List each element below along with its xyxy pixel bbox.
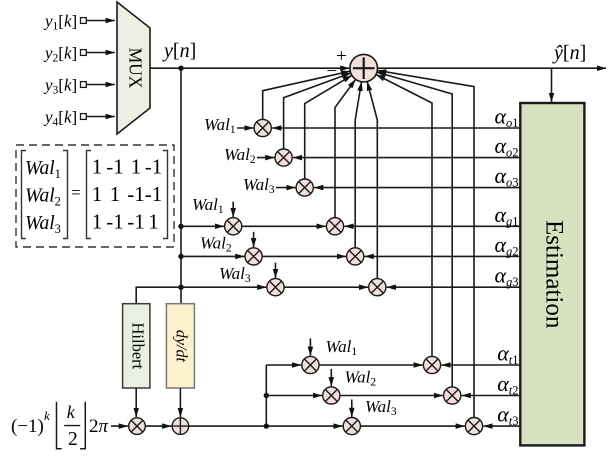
svg-text:Wal1: Wal1 [204, 115, 236, 136]
wire t1 first to second multiplier [319, 364, 423, 366]
wire alpha_g1 from Estimation [344, 225, 520, 227]
wire g2 product up to adder [355, 82, 361, 248]
svg-text:-1: -1 [106, 155, 124, 179]
svg-text:(−1): (−1) [11, 416, 44, 437]
wire alpha_o3 from Estimation [314, 187, 520, 189]
wire t3 product up to adder [377, 71, 474, 418]
svg-text:αo3: αo3 [494, 163, 518, 190]
wire alpha_o1 from Estimation [272, 127, 520, 129]
wire alpha_t2 from Estimation [462, 395, 521, 397]
wire 2pi into phase multiplier [111, 425, 128, 427]
svg-text:-1: -1 [127, 209, 145, 233]
svg-text:−: − [327, 61, 338, 82]
wire o1 product up to adder [263, 71, 351, 119]
wire alpha_t1 from Estimation [441, 364, 520, 366]
wire g1 product up to adder [335, 79, 356, 217]
svg-text:2: 2 [68, 429, 78, 450]
multiplier g3b [369, 279, 386, 296]
wire Wal_2 down into multiplier [253, 232, 255, 247]
svg-text:Estimation: Estimation [541, 220, 568, 329]
svg-text:Wal2: Wal2 [200, 234, 232, 255]
svg-text:Wal3: Wal3 [365, 397, 397, 418]
wire y1 into MUX [86, 20, 115, 22]
wire g3 first to second multiplier [284, 286, 368, 288]
wire phase adder output to t3 multiplier [189, 425, 343, 427]
wire t2 product up to adder [377, 72, 452, 387]
wire dy/dt output [179, 388, 181, 417]
svg-text:Hilbert: Hilbert [128, 323, 147, 370]
input port square y3 [81, 82, 87, 88]
multiplier g2a [245, 248, 262, 265]
multiplier phase [129, 418, 146, 435]
matrix row 2 values [92, 182, 163, 206]
svg-text:1: 1 [92, 155, 103, 179]
svg-text:αg1: αg1 [494, 202, 518, 229]
wire alpha_t3 from Estimation [483, 425, 520, 427]
matrix bracket [87, 151, 92, 239]
wire main vertical y[n] down to dy/dt [180, 68, 182, 305]
multiplier o2 [275, 149, 292, 166]
svg-text:-1: -1 [145, 182, 163, 206]
svg-text:y2[k]: y2[k] [43, 44, 77, 65]
wire feed t1 [266, 364, 301, 366]
Wal vector bracket left [22, 151, 27, 239]
wire g2 first to second multiplier [262, 255, 346, 257]
svg-text:2π: 2π [89, 416, 109, 437]
svg-text:-1: -1 [145, 155, 163, 179]
wire feed into g2 first multiplier [181, 255, 244, 257]
adder phase [172, 418, 189, 435]
wire Wal_2 down into t2 multiplier [330, 369, 332, 386]
svg-text:1: 1 [148, 209, 159, 233]
svg-text:Wal2: Wal2 [224, 145, 256, 166]
wire Wal_3 down into t3 multiplier [351, 400, 353, 417]
wire y3 into MUX [86, 84, 115, 86]
svg-text:-1: -1 [127, 182, 145, 206]
svg-text:αt2: αt2 [497, 371, 518, 398]
wire branch to Hilbert [136, 287, 181, 305]
svg-text:αo1: αo1 [494, 104, 518, 131]
wire g1 first to second multiplier [242, 225, 326, 227]
input port square y4 [81, 114, 87, 120]
svg-text:MUX: MUX [125, 48, 145, 89]
input port square y1 [81, 18, 87, 24]
node t3 feed [264, 423, 269, 428]
svg-text:k: k [67, 402, 76, 422]
wire Wal_3 into multiplier [276, 187, 296, 189]
svg-text:y3[k]: y3[k] [43, 76, 77, 97]
wire feed into g1 first multiplier [181, 225, 224, 227]
matrix row 1 values [92, 155, 163, 179]
wire t3 first to second multiplier [360, 425, 464, 427]
wire t2 first to second multiplier [340, 395, 443, 397]
multiplier t1a [302, 356, 319, 373]
svg-text:-1: -1 [106, 209, 124, 233]
svg-text:+: + [336, 46, 347, 67]
wire Wal_3 down into multiplier [275, 263, 277, 278]
wire o2 product up to adder [284, 73, 351, 149]
wire t-feed vertical [265, 365, 267, 426]
node y[n] branch [178, 66, 183, 71]
multiplier g1b [326, 218, 343, 235]
Estimation block [520, 103, 584, 445]
wire alpha_o2 from Estimation [293, 157, 520, 159]
wire alpha_g3 from Estimation [387, 286, 521, 288]
svg-text:αt1: αt1 [497, 341, 518, 368]
svg-text:1: 1 [131, 155, 142, 179]
Hilbert block [123, 304, 150, 388]
wire y4 into MUX [86, 116, 115, 118]
svg-text:Wal1: Wal1 [192, 195, 224, 216]
svg-text:=: = [71, 183, 81, 202]
wire feed into g3 first multiplier [181, 286, 266, 288]
wire phase multiplier to phase adder [145, 425, 171, 427]
node g1 feed [178, 224, 183, 229]
multiplier g1a [225, 218, 242, 235]
svg-text:y1[k]: y1[k] [43, 12, 77, 33]
multiplier t3a [343, 418, 360, 435]
wire feed t2 [266, 395, 322, 397]
svg-text:αt3: αt3 [497, 402, 518, 429]
svg-text:αg3: αg3 [494, 263, 518, 290]
wire alpha_g2 from Estimation [365, 255, 521, 257]
node t2 feed [264, 393, 269, 398]
MUX block [117, 2, 150, 134]
node g2 feed [178, 254, 183, 259]
wire Hilbert output [135, 388, 137, 417]
svg-text:y4[k]: y4[k] [43, 108, 77, 129]
svg-text:Wal1: Wal1 [25, 158, 61, 181]
multiplier t2b [444, 387, 461, 404]
svg-text:αg2: αg2 [494, 232, 518, 259]
svg-text:ŷ[n]: ŷ[n] [552, 42, 586, 64]
svg-text:1: 1 [92, 182, 103, 206]
wire Wal_1 down into t1 multiplier [309, 338, 311, 355]
svg-text:αo2: αo2 [494, 133, 518, 160]
input port square y2 [81, 50, 87, 56]
wire Wal_2 into multiplier [257, 157, 274, 159]
multiplier t2a [323, 387, 340, 404]
svg-text:1: 1 [92, 209, 103, 233]
multiplier t1b [423, 356, 440, 373]
multiplier o3 [296, 179, 313, 196]
svg-text:y[n]: y[n] [162, 40, 196, 62]
wire y2 into MUX [86, 52, 115, 54]
wire g3 product up to adder [367, 82, 377, 279]
dashed box Walsh matrix [16, 145, 174, 247]
adder (summing junction) [350, 54, 378, 82]
svg-text:Wal2: Wal2 [345, 368, 377, 389]
svg-text:k: k [44, 408, 50, 423]
multiplier g3a [267, 279, 284, 296]
node g3 / Hilbert branch [178, 285, 183, 290]
wire t1 product up to adder [376, 75, 432, 357]
wire drop into Estimation [551, 68, 553, 102]
dy/dt block [166, 304, 194, 388]
svg-text:Wal3: Wal3 [25, 213, 61, 236]
svg-text:Wal3: Wal3 [219, 264, 251, 285]
matrix row 3 values [92, 209, 159, 233]
wire adder output to yhat [378, 67, 607, 69]
svg-text:dy/dt: dy/dt [173, 330, 190, 363]
svg-text:Wal1: Wal1 [326, 337, 358, 358]
multiplier o1 [254, 119, 271, 136]
wire o3 product up to adder [305, 75, 352, 179]
multiplier g2b [347, 248, 364, 265]
wire Wal_1 down into multiplier [232, 202, 234, 217]
svg-text:1: 1 [110, 182, 121, 206]
multiplier t3b [465, 418, 482, 435]
wire y[n] from MUX to adder [150, 67, 349, 69]
wire Wal_1 into multiplier [237, 127, 254, 129]
svg-text:Wal3: Wal3 [243, 175, 275, 196]
svg-text:Wal2: Wal2 [25, 186, 61, 209]
